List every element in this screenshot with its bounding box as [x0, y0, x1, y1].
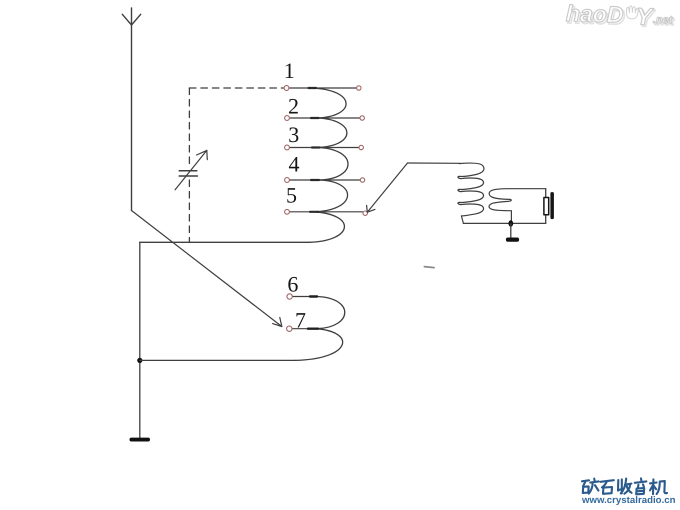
wire: coil bottom to left vertical [140, 241, 309, 243]
coil L1 loop junction thickenings [309, 88, 320, 212]
coil L1 tap 1 line [290, 87, 357, 89]
coil L2 winding loops [295, 297, 345, 361]
wire: bottom rail to lower coil [140, 359, 295, 361]
dashed wire: capacitor branch vertical [188, 88, 190, 166]
svg-text:haoD: haoD [566, 0, 624, 27]
收 [618, 479, 632, 494]
tap 3 left terminal circle [285, 145, 290, 150]
dashed wire: capacitor branch horizontal to tap 1 [189, 87, 283, 89]
矿 [582, 479, 599, 494]
coil L2 tap 6 line [293, 296, 316, 298]
tap 1 left terminal circle [284, 86, 289, 91]
tap 7 terminal circle [287, 326, 292, 331]
coil L1 winding loops [309, 88, 348, 242]
机 [650, 479, 667, 494]
coil L2 tap 7 line [292, 328, 314, 330]
tap 4 left terminal circle [285, 178, 290, 183]
tap 5 left terminal circle [285, 209, 290, 214]
石 [601, 480, 614, 494]
variable capacitor C1 [179, 171, 197, 176]
svg-text:3: 3 [288, 122, 299, 147]
wire: bottom rail [463, 222, 545, 224]
wire: to transformer primary [408, 162, 461, 164]
ground G2 [506, 238, 519, 242]
earphone BP1 diaphragm bar [550, 192, 554, 219]
音 [635, 478, 647, 494]
earphone BP1 body [544, 198, 549, 215]
wire: secondary top to earphone [545, 189, 547, 198]
ground G1 [130, 438, 151, 442]
junction node B [508, 220, 513, 226]
wire: left vertical down to ground [139, 242, 141, 437]
svg-text:Y: Y [636, 3, 655, 30]
transformer T1 primary winding [458, 163, 484, 223]
variable capacitor arrow [175, 150, 207, 189]
tap 4 right terminal circle [360, 178, 364, 182]
arrowhead at tap 5 [367, 205, 375, 212]
transformer T1 secondary winding [489, 189, 546, 224]
svg-text:6: 6 [287, 272, 298, 297]
svg-text:7: 7 [295, 307, 306, 332]
coil L2 loop junction thickenings [308, 297, 318, 329]
wire: junction to ground [510, 224, 512, 238]
tap 6 terminal circle [287, 294, 292, 299]
svg-text:2: 2 [288, 94, 299, 119]
coil L1 tap 4 line [290, 179, 360, 181]
hand glyph of logo [626, 6, 638, 19]
tap 2 left terminal circle [285, 116, 290, 121]
tap 3 right terminal circle [359, 145, 363, 149]
watermark haoDIY.net logo [566, 0, 676, 33]
svg-text:.net: .net [653, 14, 674, 27]
arrowhead at tap 7 [273, 318, 282, 327]
coil L1 tap 3 line [290, 147, 359, 149]
coil L1 tap 2 line [290, 117, 360, 119]
coil L1 tap 5 line [290, 211, 363, 213]
stray mark [424, 267, 434, 268]
tap 2 right terminal circle [360, 116, 364, 120]
antenna [122, 8, 140, 211]
wire: detector arm from transformer [367, 163, 407, 212]
svg-text:4: 4 [289, 152, 300, 177]
wire: rail up to earphone bottom [545, 215, 547, 224]
crystalradio.cn logo text 矿石收音机 [582, 478, 667, 494]
junction node A [137, 358, 142, 363]
tap 1 right terminal circle [357, 86, 361, 90]
svg-text:5: 5 [286, 182, 297, 207]
svg-text:www.crystalradio.cn: www.crystalradio.cn [581, 495, 676, 506]
svg-text:1: 1 [284, 58, 295, 83]
tap 5 right terminal circle [363, 211, 367, 215]
wire: antenna diagonal selector to tap 7 [132, 211, 282, 327]
